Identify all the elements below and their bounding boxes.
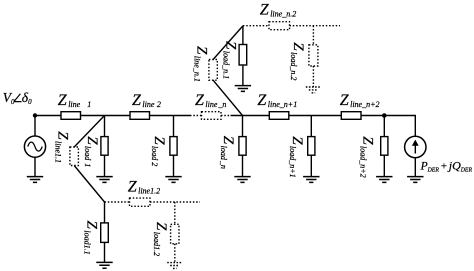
ground load_n.2 dashed xyxy=(306,87,321,93)
svg-text:δ0: δ0 xyxy=(22,90,32,106)
svg-text:Zload_n+1: Zload_n+1 xyxy=(288,136,305,177)
wire dashed bus xyxy=(221,115,231,117)
svg-text:Zload_n.2: Zload_n.2 xyxy=(289,42,306,80)
resistor Z_line_n+2 xyxy=(341,112,361,120)
wire dashed load_n.2 top xyxy=(312,26,314,45)
resistor Z_line_n.1 dashed xyxy=(209,60,217,81)
voltage source V0 xyxy=(24,136,45,157)
wire source top xyxy=(34,116,36,137)
svg-text:Zload1.2: Zload1.2 xyxy=(152,222,169,256)
svg-text:Zline_n: Zline_n xyxy=(195,92,226,109)
resistor Z_load_n xyxy=(239,137,246,156)
wire shunt load_n bottom xyxy=(242,155,244,176)
wire shunt load_n+2 top xyxy=(383,116,385,137)
resistor Z_load_n.2 dashed xyxy=(309,45,318,66)
svg-text:Zline1.1: Zline1.1 xyxy=(53,131,70,163)
resistor Z_load2 xyxy=(170,137,177,156)
wire shunt load2 bottom xyxy=(173,155,175,176)
wire dashed bus xyxy=(190,115,202,117)
wire bus n1 to Zline1 xyxy=(35,115,61,117)
wire bus Zline2 to dashed section through node3 xyxy=(150,115,191,117)
ground DER xyxy=(407,177,423,183)
svg-text:Zline_n+1: Zline_n+1 xyxy=(257,92,297,109)
svg-text:Zload2: Zload2 xyxy=(150,136,167,166)
wire dashed load_n.2 bottom xyxy=(312,66,314,87)
ground source xyxy=(27,177,43,183)
ground load1.1 xyxy=(96,262,112,268)
resistor Z_load1.1 xyxy=(101,223,109,243)
wire bus to Zline_n+1 through node4 xyxy=(231,115,270,117)
wire source bottom xyxy=(34,157,36,176)
ground load1 xyxy=(96,177,112,183)
wire dashed load1.2 bottom xyxy=(174,244,176,263)
wire load1.1 top xyxy=(104,202,106,223)
resistor Z_line2 xyxy=(130,112,150,120)
ground load_n.1 xyxy=(235,86,251,92)
resistor Z_load_n+1 xyxy=(308,137,315,156)
ground load_n+1 xyxy=(303,177,319,183)
wire bus Zline_n+1 to Zline_n+2 through node5 xyxy=(289,115,342,117)
resistor Z_line1.2 dashed xyxy=(130,198,151,206)
wire dashed load1.2 top xyxy=(174,202,176,224)
current source DER xyxy=(405,136,426,157)
resistor Z_load1.2 dashed xyxy=(171,224,179,244)
ground load_n+2 xyxy=(376,177,392,183)
resistor Z_load1 xyxy=(101,137,108,156)
wire DER bottom xyxy=(414,158,416,177)
wire dashed Zline1.2 right xyxy=(150,201,200,203)
svg-text:Zline1: Zline1 xyxy=(58,92,91,109)
wire load_n.1 top xyxy=(242,26,244,45)
wire diagonal Zline_n.1 to top node xyxy=(213,26,243,60)
wire dashed subnode to Zline1.2 xyxy=(105,201,130,203)
wire load_n.1 bottom xyxy=(242,65,244,86)
resistor Z_line1.1 dashed xyxy=(70,147,79,166)
resistor Z_load_n.1 xyxy=(239,45,247,66)
wire shunt load2 top xyxy=(173,116,175,137)
wire shunt load_n top xyxy=(242,116,244,137)
ground load2 xyxy=(165,177,181,183)
svg-text:Zload_n.1: Zload_n.1 xyxy=(221,41,238,79)
svg-text:Zline_n.1: Zline_n.1 xyxy=(192,46,209,82)
resistor Z_line_n dashed xyxy=(202,112,222,120)
svg-text:PDER+jQDER: PDER+jQDER xyxy=(420,158,473,173)
wire bus Zline_n+2 to right corner through node6 xyxy=(361,116,415,137)
resistor Z_line_n.2 dashed xyxy=(269,22,290,30)
wire shunt load_n+1 bottom xyxy=(310,155,312,176)
wire diagonal Zline1.1 to subnode xyxy=(74,166,104,203)
svg-text:Zload_n+2: Zload_n+2 xyxy=(358,136,375,177)
wire dashed top line right xyxy=(290,25,341,27)
svg-text:Zload1: Zload1 xyxy=(83,136,100,167)
resistor Z_line1 xyxy=(61,112,81,120)
svg-text:Zline_n+2: Zline_n+2 xyxy=(340,92,380,109)
resistor Z_load_n+2 xyxy=(381,137,388,156)
wire shunt load_n+1 top xyxy=(310,116,312,137)
wire shunt load_n+2 bottom xyxy=(383,155,385,176)
svg-text:Zline_n.2: Zline_n.2 xyxy=(260,2,296,19)
wire load1.1 bottom xyxy=(104,242,106,262)
wire diagonal node2 to Zline1.1 xyxy=(74,116,104,148)
node V0 label xyxy=(3,90,32,106)
svg-text:Zline1.2: Zline1.2 xyxy=(128,179,160,196)
wire dashed top line left xyxy=(243,25,269,27)
wire bus Zline1 to Zline2 through node2 xyxy=(81,115,131,117)
node V0 dot xyxy=(33,113,37,117)
ground load1.2 dashed xyxy=(167,263,182,269)
node DER dot xyxy=(382,113,387,118)
svg-text:Zline2: Zline2 xyxy=(132,92,161,109)
wire diagonal node4 to Zline_n.1 xyxy=(213,80,242,115)
wire shunt load1 bottom xyxy=(104,155,106,176)
svg-text:Zload_n: Zload_n xyxy=(219,136,236,169)
wire shunt load1 top xyxy=(104,116,106,137)
svg-text:Zload1.1: Zload1.1 xyxy=(82,221,99,255)
resistor Z_line_n+1 xyxy=(269,112,289,120)
svg-text:V0: V0 xyxy=(3,90,15,106)
ground load_n xyxy=(234,177,250,183)
